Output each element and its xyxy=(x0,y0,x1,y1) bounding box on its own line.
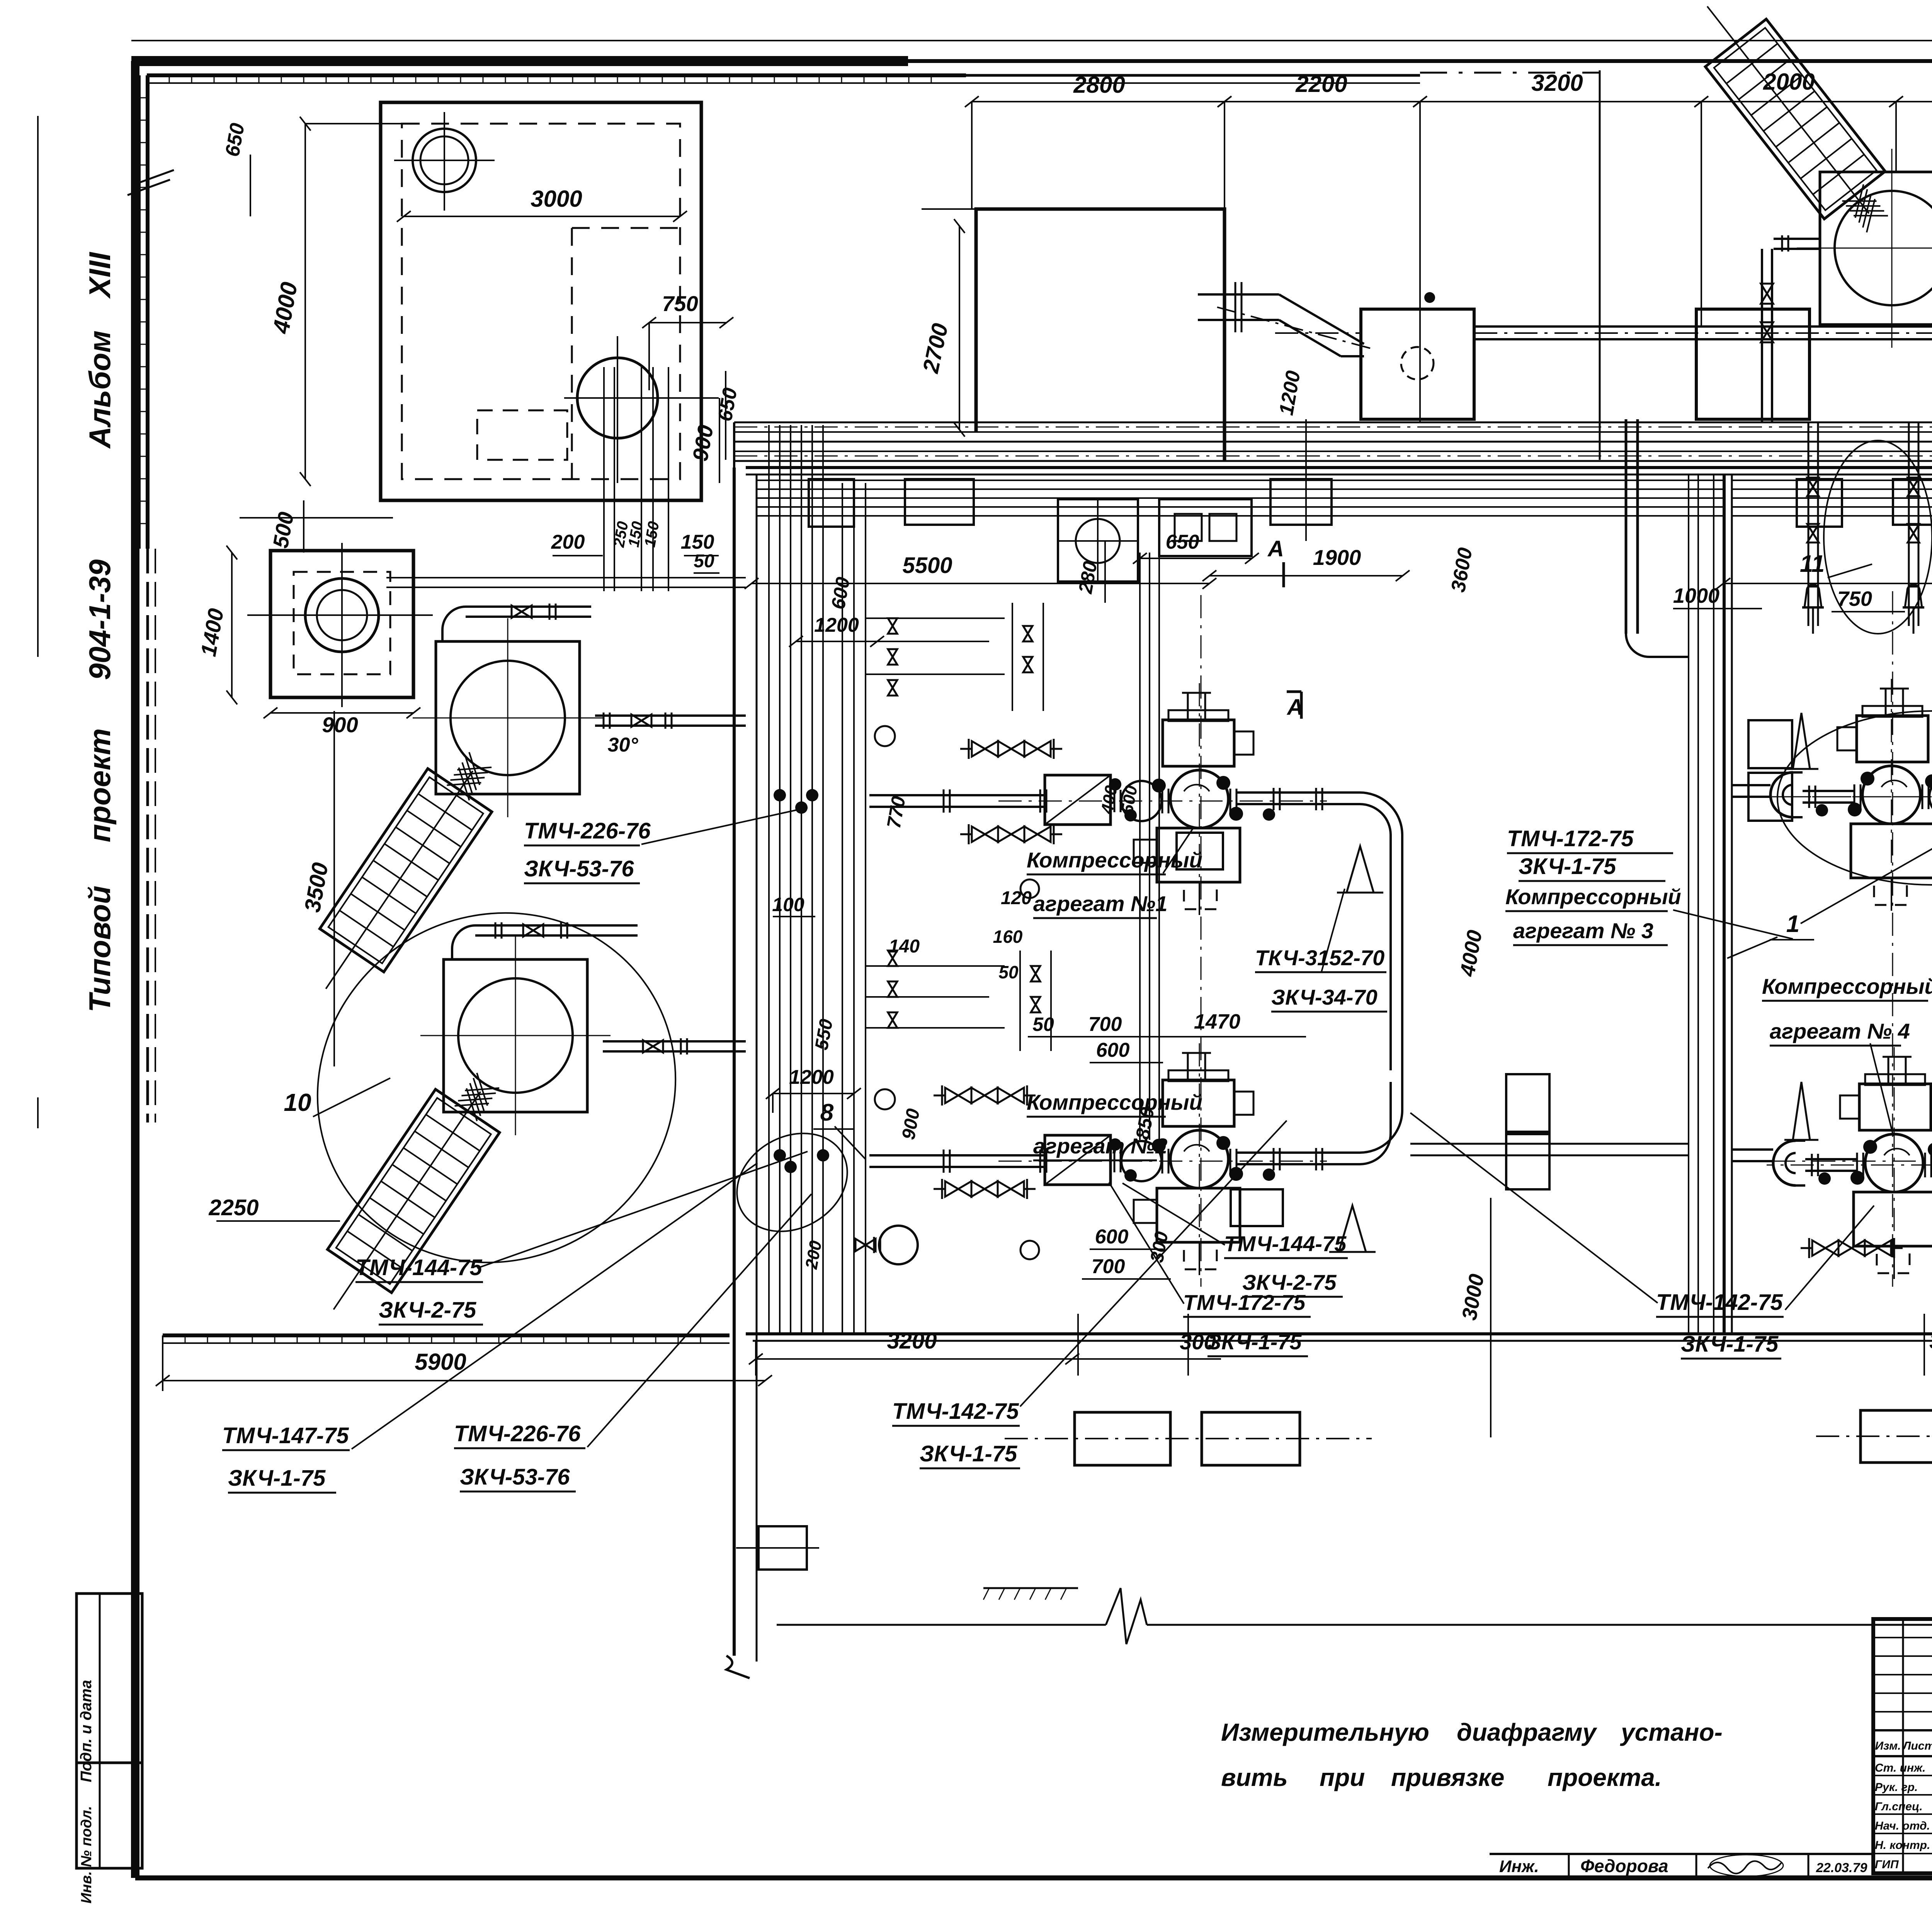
svg-text:2200: 2200 xyxy=(1295,71,1347,97)
svg-text:1000: 1000 xyxy=(1673,584,1719,607)
small valve stack left b xyxy=(888,951,897,966)
left hall mid verticals xyxy=(1139,553,1141,1140)
dim 1400 xyxy=(231,553,233,697)
svg-text:3200: 3200 xyxy=(1531,70,1583,96)
svg-text:ЗКЧ-53-76: ЗКЧ-53-76 xyxy=(460,1464,570,1490)
svg-text:устано-: устано- xyxy=(1620,1718,1723,1746)
pier on west wall below hall xyxy=(759,1526,807,1570)
svg-text:ЗКЧ-1-75: ЗКЧ-1-75 xyxy=(1681,1332,1779,1357)
svg-text:1200: 1200 xyxy=(814,614,859,636)
manhole circle 1 xyxy=(413,129,476,192)
pier 5 xyxy=(1893,479,1932,525)
equipment circle 2 xyxy=(577,358,658,438)
cooling unit 10a box xyxy=(436,641,580,794)
pier 4 xyxy=(1797,479,1842,527)
dim 650b xyxy=(1140,558,1252,559)
anchor box 2 xyxy=(1696,309,1810,419)
svg-text:Лист: Лист xyxy=(1902,1740,1932,1752)
support triangle u2 xyxy=(1339,1206,1366,1252)
platform edge with ticks xyxy=(983,1587,1078,1589)
south fence xyxy=(163,1333,730,1337)
svg-text:ЗКЧ-1-75: ЗКЧ-1-75 xyxy=(1519,854,1616,879)
weld dots west bundle xyxy=(774,789,786,801)
unit2 discharge elbow xyxy=(1360,1082,1402,1153)
dashed pad xyxy=(477,410,567,460)
dim 1900 xyxy=(1209,575,1403,577)
svg-text:Изм.: Изм. xyxy=(1875,1740,1901,1752)
svg-text:200: 200 xyxy=(551,531,585,553)
cooling unit 10b box xyxy=(444,959,587,1112)
valve cluster 11 pipes xyxy=(1808,422,1810,626)
svg-text:300: 300 xyxy=(1180,1330,1216,1354)
svg-text:Компрессорный: Компрессорный xyxy=(1027,1090,1202,1114)
center wall piers right xyxy=(1748,720,1792,768)
hall north wall xyxy=(746,466,1932,469)
blob 8 xyxy=(719,1114,865,1251)
svg-text:50: 50 xyxy=(1032,1014,1054,1035)
west boundary wall xyxy=(146,75,150,549)
dim 5900 xyxy=(163,1380,765,1381)
svg-text:2000: 2000 xyxy=(1763,69,1815,95)
svg-text:ТМЧ-144-75: ТМЧ-144-75 xyxy=(1224,1231,1347,1256)
pier 2 xyxy=(905,479,974,525)
unit column centerline left xyxy=(1201,595,1202,1287)
svg-text:ТМЧ-144-75: ТМЧ-144-75 xyxy=(355,1255,482,1280)
svg-text:1200: 1200 xyxy=(789,1066,834,1088)
svg-text:750: 750 xyxy=(662,291,698,316)
apparatus room partition dashed xyxy=(571,228,573,479)
interior west instrument column xyxy=(842,483,843,1334)
dim 5500 xyxy=(752,583,1209,584)
foundation pad xyxy=(270,551,413,697)
svg-text:22.03.79: 22.03.79 xyxy=(1816,1861,1867,1875)
svg-text:3200: 3200 xyxy=(887,1328,937,1354)
vestibule double squares xyxy=(1159,499,1252,556)
svg-text:ТКЧ-3152-70: ТКЧ-3152-70 xyxy=(1255,946,1384,970)
svg-text:ТМЧ-172-75: ТМЧ-172-75 xyxy=(1507,826,1634,851)
svg-text:2250: 2250 xyxy=(208,1195,259,1220)
left manifold bundle vertical xyxy=(768,425,770,1334)
break mark on west wall xyxy=(131,170,174,185)
svg-text:600: 600 xyxy=(1096,1039,1130,1061)
unit C radiator xyxy=(1677,0,1908,248)
aftercooler unit1 xyxy=(1177,833,1223,869)
dim 750 xyxy=(649,322,726,323)
svg-text:ТМЧ-142-75: ТМЧ-142-75 xyxy=(892,1399,1019,1424)
svg-text:ТМЧ-147-75: ТМЧ-147-75 xyxy=(222,1423,349,1448)
support triangle u3 xyxy=(1793,713,1810,769)
extension lines top dims xyxy=(971,102,973,209)
dim 3500 vertical xyxy=(333,711,335,1066)
svg-text:вить: вить xyxy=(1221,1764,1288,1791)
dim 500 xyxy=(303,500,304,553)
boundary line right of wall xyxy=(1599,70,1601,460)
finned cooler chain u1 a xyxy=(972,741,998,757)
unit C pipes xyxy=(1774,238,1820,240)
sheet edge line top xyxy=(131,40,1932,41)
north boundary wall xyxy=(147,73,966,77)
svg-text:650: 650 xyxy=(1166,531,1199,553)
svg-text:100: 100 xyxy=(772,894,804,915)
engineer strip xyxy=(1490,1853,1873,1855)
svg-text:А: А xyxy=(1267,536,1284,561)
air duct diagonal xyxy=(1252,293,1279,296)
svg-text:150: 150 xyxy=(681,531,714,553)
cooling unit 10a radiator xyxy=(294,738,512,1010)
aftercooler unit2 xyxy=(1231,1189,1283,1226)
dim 900 pad xyxy=(270,712,413,714)
long break line bottom xyxy=(777,1624,1106,1626)
oval 11 xyxy=(1824,440,1932,634)
svg-text:агрегат №1: агрегат №1 xyxy=(1033,891,1167,916)
protruding room top xyxy=(976,209,1225,461)
svg-text:агрегат № 4: агрегат № 4 xyxy=(1770,1019,1910,1043)
svg-text:160: 160 xyxy=(993,927,1023,947)
svg-text:ЗКЧ-34-70: ЗКЧ-34-70 xyxy=(1271,985,1378,1009)
svg-text:ЗКЧ-1-75: ЗКЧ-1-75 xyxy=(920,1441,1017,1466)
svg-text:3000: 3000 xyxy=(531,186,582,212)
svg-text:агрегат № 3: агрегат № 3 xyxy=(1513,918,1653,943)
svg-text:диафрагму: диафрагму xyxy=(1457,1718,1597,1746)
foundation blocks middle xyxy=(1075,1412,1170,1465)
svg-text:Гл.спец.: Гл.спец. xyxy=(1875,1800,1923,1813)
support triangle u1 xyxy=(1347,846,1374,893)
interior manifold band below north wall xyxy=(757,480,1724,481)
dim 3000 xyxy=(404,216,680,217)
svg-text:1: 1 xyxy=(1786,911,1799,937)
riser pair between units xyxy=(1401,866,1403,1082)
apparatus room inner dashed wall xyxy=(402,124,680,479)
svg-text:ЗКЧ-1-75: ЗКЧ-1-75 xyxy=(228,1466,326,1491)
svg-text:Федорова: Федорова xyxy=(1580,1856,1668,1876)
compressor unit 4 xyxy=(1767,1165,1932,1166)
compressor unit 1 xyxy=(998,801,1327,802)
svg-text:ГИП: ГИП xyxy=(1875,1858,1899,1871)
row centerline unit4 xyxy=(1732,1161,1932,1162)
svg-text:Нач. отд.: Нач. отд. xyxy=(1875,1820,1930,1832)
svg-text:1900: 1900 xyxy=(1313,545,1361,570)
unit1 discharge elbow xyxy=(1360,793,1402,866)
corridor lines xyxy=(1688,474,1689,1334)
svg-text:900: 900 xyxy=(322,713,358,737)
finned cooler chain u2 b xyxy=(945,1181,971,1197)
instrument circles xyxy=(875,726,895,746)
pier 3 xyxy=(1270,479,1332,525)
center wall piers left xyxy=(1506,1074,1549,1132)
svg-text:750: 750 xyxy=(1837,587,1872,611)
title block revision table xyxy=(1902,1619,1904,1873)
ellipse around unit3 xyxy=(1777,711,1932,885)
floor pit with circle xyxy=(1058,499,1138,582)
svg-text:1470: 1470 xyxy=(1194,1010,1240,1033)
top right cooling unit C box xyxy=(1820,172,1932,325)
title block outline xyxy=(1873,1619,1932,1873)
svg-text:Компрессорный: Компрессорный xyxy=(1027,848,1202,872)
svg-text:ТМЧ-226-76: ТМЧ-226-76 xyxy=(454,1421,581,1446)
dim 900 vertical xyxy=(719,398,720,483)
stub pipes left hall xyxy=(866,617,1005,619)
svg-text:XIII: XIII xyxy=(83,252,117,299)
finned cooler chain u1 b xyxy=(972,827,998,842)
svg-text:50: 50 xyxy=(998,962,1019,982)
compressor unit 3 xyxy=(1764,796,1932,798)
main riser top bend xyxy=(1603,396,1626,419)
cooling unit 10a pipes xyxy=(595,714,746,717)
svg-text:140: 140 xyxy=(889,936,920,957)
dim 1200 left xyxy=(773,1093,854,1094)
svg-text:ТМЧ-172-75: ТМЧ-172-75 xyxy=(1183,1290,1306,1315)
main riser into hall xyxy=(1625,419,1628,634)
small valve stack left a xyxy=(888,618,897,634)
dim 4000 vertical xyxy=(304,124,306,479)
svg-text:Инв. № подл.: Инв. № подл. xyxy=(78,1806,95,1904)
row centerline unit3 xyxy=(1732,796,1932,798)
cooling unit 10b radiator xyxy=(301,1059,520,1331)
compressor unit 2 xyxy=(998,1161,1327,1162)
unit4 suction elbow xyxy=(1732,1148,1773,1151)
svg-text:Ст. инж.: Ст. инж. xyxy=(1875,1762,1925,1774)
svg-text:Компрессорный: Компрессорный xyxy=(1762,974,1932,998)
pipe rack horizontal band xyxy=(734,422,1932,423)
hall center wall xyxy=(1723,474,1726,1334)
svg-text:ТМЧ-226-76: ТМЧ-226-76 xyxy=(524,818,651,844)
stamp boxes left margin xyxy=(77,1594,142,1868)
hall south wall xyxy=(746,1332,1932,1335)
svg-text:при: при xyxy=(1320,1764,1365,1791)
svg-text:ТМЧ-142-75: ТМЧ-142-75 xyxy=(1656,1290,1783,1315)
cooling unit 10b pipes xyxy=(603,1040,746,1043)
dim chain top xyxy=(972,101,1225,102)
svg-text:300: 300 xyxy=(1929,1329,1932,1353)
svg-text:8: 8 xyxy=(820,1099,834,1126)
dim 3200 mid xyxy=(756,1358,1072,1360)
svg-text:904-1-39: 904-1-39 xyxy=(83,559,117,680)
svg-text:проекта.: проекта. xyxy=(1548,1764,1662,1791)
foundation blocks right xyxy=(1861,1410,1932,1463)
svg-text:Подп. и дата: Подп. и дата xyxy=(78,1680,95,1782)
unit3 suction elbow from corridor xyxy=(1732,784,1770,786)
dim 2700 vertical xyxy=(959,226,960,430)
svg-text:5900: 5900 xyxy=(415,1349,466,1375)
label TM4-142-75 mid-left leader xyxy=(1020,1121,1287,1406)
svg-text:700: 700 xyxy=(1092,1255,1125,1278)
svg-text:Компрессорный: Компрессорный xyxy=(1505,884,1681,909)
outdoor pipe run upper xyxy=(1474,325,1932,328)
pad double circle xyxy=(305,578,379,652)
air duct flange xyxy=(1235,282,1242,332)
svg-text:10: 10 xyxy=(284,1088,311,1116)
valve wheel 8 xyxy=(879,1226,918,1264)
svg-text:Альбом: Альбом xyxy=(83,330,117,449)
finned cooler chain u4 xyxy=(1812,1240,1838,1256)
pipes bundle above hall xyxy=(386,577,746,578)
svg-text:600: 600 xyxy=(1095,1226,1129,1248)
svg-text:50: 50 xyxy=(694,551,714,571)
svg-text:привязке: привязке xyxy=(1391,1764,1504,1791)
pier 1 xyxy=(809,479,854,527)
apparatus room outline xyxy=(381,102,701,500)
unit2 suction xyxy=(869,1154,1043,1156)
svg-text:ЗКЧ-53-76: ЗКЧ-53-76 xyxy=(524,856,634,881)
finned cooler chain u2 a xyxy=(945,1088,971,1103)
dim 1200 upper left xyxy=(796,641,877,642)
pad inner dashed xyxy=(294,572,390,674)
unit column centerline right xyxy=(1892,591,1893,1287)
unit1-2 connection to corridor xyxy=(1410,1143,1689,1145)
svg-text:5500: 5500 xyxy=(902,553,952,578)
excavation outline around unit 10 xyxy=(252,846,742,1330)
unit1 suction from manifold xyxy=(869,794,1043,796)
svg-text:2800: 2800 xyxy=(1073,72,1125,98)
svg-text:Типовой: Типовой xyxy=(83,886,117,1012)
svg-text:30°: 30° xyxy=(608,734,639,756)
frame border xyxy=(131,56,908,66)
anchor box 1 xyxy=(1361,309,1474,419)
svg-text:Н. контр.: Н. контр. xyxy=(1875,1839,1930,1852)
svg-text:ЗКЧ-1-75: ЗКЧ-1-75 xyxy=(1207,1330,1302,1354)
svg-text:ЗКЧ-2-75: ЗКЧ-2-75 xyxy=(379,1298,476,1323)
dim 7000 xyxy=(1723,583,1932,584)
svg-text:11: 11 xyxy=(1800,551,1825,577)
svg-text:700: 700 xyxy=(1088,1013,1122,1036)
svg-text:Рук. гр.: Рук. гр. xyxy=(1875,1781,1918,1794)
svg-text:проект: проект xyxy=(83,728,117,842)
svg-text:120: 120 xyxy=(1001,888,1032,908)
hall west wall xyxy=(733,468,736,1656)
sheet edge line left xyxy=(37,116,39,657)
support triangle u4 xyxy=(1793,1082,1810,1140)
svg-text:Измерительную: Измерительную xyxy=(1221,1718,1429,1746)
svg-text:Инж.: Инж. xyxy=(1499,1857,1539,1876)
